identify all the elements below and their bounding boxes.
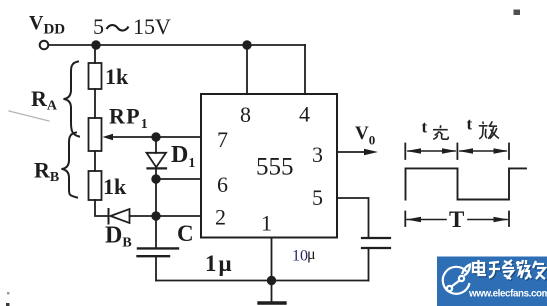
svg-text:www.elecfans.com: www.elecfans.com	[468, 289, 547, 300]
svg-text:V0: V0	[355, 123, 375, 148]
wire pin8	[246, 45, 248, 94]
ground	[271, 281, 273, 302]
scan artifact diagonal	[9, 111, 49, 121]
svg-text:T: T	[449, 207, 464, 232]
svg-text:t: t	[467, 115, 473, 134]
svg-text:RA: RA	[31, 86, 58, 114]
waveform dimension ticks top	[404, 144, 406, 160]
watermark logo	[443, 265, 470, 294]
resistor 1k upper	[89, 63, 102, 89]
diode DB triangle	[111, 209, 130, 223]
capacitor C top plate	[138, 247, 178, 249]
diode DB cathode bar	[108, 209, 110, 224]
svg-text:1k: 1k	[103, 174, 127, 199]
waveform square wave	[406, 168, 527, 199]
svg-text:555: 555	[256, 154, 294, 181]
potentiometer RP1 body	[89, 118, 102, 151]
wire 10u to rail	[368, 248, 370, 281]
svg-text:1: 1	[261, 211, 272, 236]
svg-text:RB: RB	[34, 158, 59, 186]
node pin6 junction	[152, 175, 160, 183]
watermark title strokes	[473, 260, 545, 279]
capacitor 10u top plate	[362, 237, 390, 239]
brace RB	[62, 133, 78, 198]
svg-text:DB: DB	[105, 223, 132, 251]
brace RA	[64, 62, 80, 137]
watermark box	[437, 257, 547, 306]
node junction pin8 top	[243, 41, 251, 49]
svg-text:RP1: RP1	[109, 104, 149, 133]
wire node to capacitor C	[155, 216, 157, 248]
wire pin3 output	[337, 151, 371, 153]
dimension arrows T	[407, 219, 446, 221]
capacitor C bottom plate	[138, 255, 170, 257]
wire	[95, 200, 108, 216]
wire wiper to pin7	[110, 136, 201, 138]
wire C to ground rail	[155, 256, 157, 281]
op-amp U1 555 box	[201, 94, 337, 238]
wire pin5	[337, 198, 369, 238]
svg-text:4: 4	[299, 102, 310, 127]
dimension arrows t-charge	[408, 150, 455, 152]
wire pin4	[304, 45, 306, 94]
svg-text:2: 2	[215, 205, 226, 230]
wire pin1	[271, 238, 273, 281]
diode D1 cathode bar	[148, 167, 167, 169]
speck bottom-left lower	[6, 303, 10, 306]
svg-text:6: 6	[217, 172, 228, 197]
svg-text:5: 5	[312, 185, 323, 210]
svg-text:5: 5	[93, 14, 104, 39]
potentiometer RP1 wiper arrow	[103, 134, 114, 141]
node C junction	[152, 212, 160, 220]
svg-text:t: t	[422, 118, 428, 137]
wire D1 top	[155, 137, 157, 153]
wire	[94, 151, 96, 171]
svg-text:1μ: 1μ	[205, 251, 234, 276]
node junction top-left	[92, 41, 100, 49]
dimension ticks bottom	[404, 212, 406, 227]
wire chain top	[94, 45, 96, 63]
diode D1 triangle	[147, 153, 167, 167]
dimension arrows t-discharge	[460, 150, 506, 152]
glyph chong	[439, 125, 441, 128]
svg-text:D1: D1	[171, 142, 195, 171]
capacitor 10u bottom plate	[362, 247, 390, 249]
terminal VDD	[40, 41, 49, 50]
wire	[94, 89, 96, 118]
watermark title shadow	[474, 261, 546, 280]
svg-text:VDD: VDD	[29, 12, 65, 38]
svg-text:3: 3	[312, 142, 323, 167]
wire DB to pin2	[130, 215, 202, 217]
speck top-right	[514, 10, 521, 16]
svg-text:15V: 15V	[133, 14, 171, 39]
svg-text:C: C	[177, 221, 194, 246]
node wiper/D1 junction	[152, 133, 160, 141]
svg-text:8: 8	[240, 102, 251, 127]
speck bottom-left upper	[7, 292, 10, 295]
resistor 1k lower	[89, 171, 102, 200]
node pin1 rail junction	[268, 277, 276, 285]
glyph fang	[482, 122, 485, 125]
wire pin6	[156, 178, 201, 180]
wire top rail	[49, 44, 306, 46]
svg-text:7: 7	[217, 127, 228, 152]
svg-text:1k: 1k	[105, 64, 129, 89]
svg-text:μ: μ	[307, 246, 316, 263]
wire D1 to node	[155, 168, 157, 216]
wire bottom rail	[156, 280, 369, 282]
svg-text:10: 10	[292, 248, 308, 265]
